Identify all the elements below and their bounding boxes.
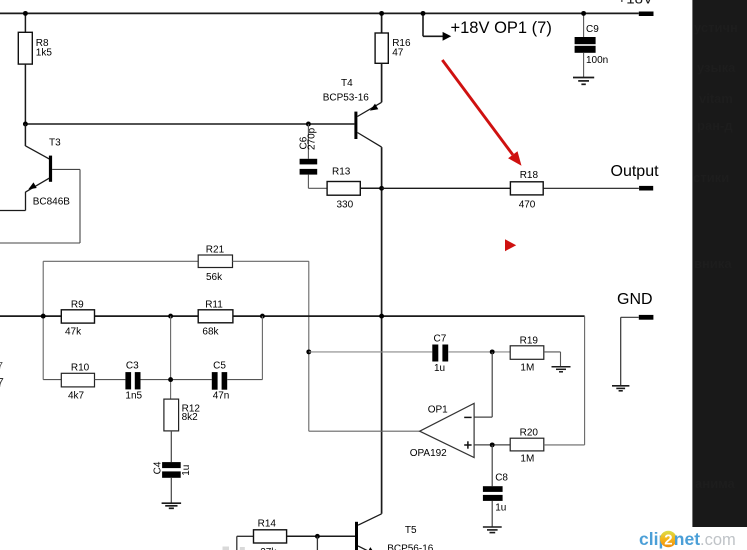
- svg-text:270p: 270p: [307, 127, 318, 150]
- svg-text:1u: 1u: [495, 503, 506, 514]
- svg-text:R14: R14: [258, 519, 277, 530]
- wire: +18V top rail: [0, 12, 639, 14]
- svg-text:330: 330: [337, 200, 354, 211]
- svg-text:R9: R9: [71, 299, 84, 310]
- node: R13 / collector junction: [379, 186, 384, 191]
- node: rail / R8 junction: [23, 11, 28, 16]
- svg-text:BCP53-16: BCP53-16: [323, 93, 370, 104]
- wire: GND terminal to ground: [621, 317, 639, 386]
- terminal bar: +18V rail: [639, 12, 654, 17]
- svg-text:R19: R19: [520, 335, 539, 346]
- svg-text:устичн: устичн: [694, 20, 738, 35]
- svg-text:стики: стики: [693, 170, 729, 185]
- resistor R11: [198, 299, 233, 337]
- svg-text:вника: вника: [694, 256, 732, 271]
- svg-text:R20: R20: [520, 427, 539, 438]
- svg-text:Output: Output: [611, 163, 660, 180]
- node: rail / collector junction: [379, 314, 384, 319]
- svg-text:7: 7: [0, 375, 4, 390]
- node: rail / flag junction: [421, 11, 426, 16]
- resistor R21: [43, 244, 309, 283]
- resistor R19: [510, 335, 560, 373]
- svg-text:1u: 1u: [434, 363, 445, 374]
- svg-text:R10: R10: [71, 363, 90, 374]
- node: R9 / R11 / vertical junction: [168, 314, 173, 319]
- wire: inverting input drop x=492.2: [474, 352, 492, 417]
- svg-text:470: 470: [519, 200, 536, 211]
- ground: under C9: [573, 78, 594, 85]
- wire: R21 right leg down to op-amp output: [308, 261, 310, 431]
- node: base rail / C6 junction: [306, 122, 311, 127]
- svg-text:7: 7: [0, 361, 3, 372]
- svg-text:47n: 47n: [213, 391, 230, 402]
- resistor R18: [510, 170, 639, 211]
- svg-text:56k: 56k: [206, 272, 223, 283]
- svg-text:+18V OP1 (7): +18V OP1 (7): [451, 19, 552, 37]
- svg-text:C3: C3: [126, 361, 139, 372]
- node: R11 right junction: [260, 314, 265, 319]
- wire: mid vertical x=170.6: [170, 316, 172, 399]
- svg-text:2: 2: [664, 532, 672, 549]
- svg-text:net: net: [674, 529, 700, 549]
- ground: GND symbol: [612, 386, 629, 391]
- svg-text:C9: C9: [586, 24, 599, 35]
- node: R14 / T5 base junction: [315, 534, 320, 539]
- node: rail / R16 junction: [379, 11, 384, 16]
- node: C3 / C5 / R12 junction: [168, 377, 173, 382]
- capacitor C8: [483, 445, 509, 527]
- svg-text:100n: 100n: [586, 55, 608, 66]
- svg-text:+18V: +18V: [618, 0, 653, 7]
- transistor T4 BCP53-16: [323, 78, 382, 147]
- svg-text:C8: C8: [495, 473, 508, 484]
- resistor R14: [237, 519, 355, 550]
- resistor R10: [43, 363, 125, 402]
- svg-text:C5: C5: [213, 361, 226, 372]
- capacitor C5: [212, 361, 263, 402]
- svg-text:1u: 1u: [181, 465, 192, 476]
- terminal bar: Output: [639, 186, 653, 191]
- node: R21 leg / C7 junction: [306, 349, 311, 354]
- wire: op-amp output line y=431: [309, 430, 420, 432]
- wire: main node rail y=316: [0, 315, 585, 317]
- transistor T5 BCP56-16: [355, 514, 434, 550]
- resistor R16: [375, 13, 411, 102]
- svg-text:4k7: 4k7: [68, 391, 85, 402]
- svg-text:68k: 68k: [202, 326, 219, 337]
- capacitor C3: [125, 361, 211, 402]
- svg-text:OPA192: OPA192: [410, 448, 447, 459]
- svg-text:C4: C4: [153, 461, 164, 474]
- ground: under C8: [483, 527, 502, 533]
- svg-text:T5: T5: [405, 525, 417, 536]
- svg-text:1M: 1M: [520, 362, 534, 373]
- svg-text:OP1: OP1: [428, 404, 448, 415]
- resistor R9: [61, 299, 94, 337]
- svg-text:ран-д: ран-д: [697, 118, 733, 133]
- op-amp U1 OP1 OPA192: [410, 403, 474, 459]
- ground: at R19: [552, 367, 571, 372]
- resistor R12: [164, 399, 200, 462]
- node: left leg junction: [41, 314, 46, 319]
- node: R8 / T3 / base-rail junction: [23, 122, 28, 127]
- ground: under C4: [162, 503, 182, 508]
- svg-text:BCP56-16: BCP56-16: [387, 544, 434, 550]
- svg-text:.com: .com: [700, 531, 736, 549]
- transistor T3 BC846B: [0, 124, 80, 243]
- svg-text:R11: R11: [205, 299, 223, 310]
- resistor R20: [510, 427, 584, 464]
- faint cut text bottom left: [223, 547, 245, 550]
- svg-text:1M: 1M: [520, 453, 534, 464]
- svg-text:vitam: vitam: [699, 91, 733, 106]
- clip2net watermark: [639, 529, 736, 549]
- svg-text:BC846B: BC846B: [33, 197, 71, 208]
- svg-text:T4: T4: [341, 78, 353, 89]
- resistor R13: [308, 167, 381, 211]
- node: rail / C9 junction: [581, 11, 586, 16]
- capacitor C9: [575, 13, 609, 77]
- svg-text:GND: GND: [617, 291, 653, 308]
- power flag +18V OP1 (7): [423, 13, 552, 40]
- svg-text:R21: R21: [206, 244, 225, 255]
- dark sidebar: [692, 0, 747, 527]
- svg-text:47: 47: [392, 47, 404, 58]
- wire: collector line x=381.6: [381, 147, 383, 514]
- wire: base rail y=124: [25, 123, 354, 125]
- wire: junction drop x=317.4: [316, 536, 318, 550]
- svg-text:C7: C7: [434, 333, 447, 344]
- wire: feedback leg x=584.6: [584, 316, 586, 445]
- wire: R21 left leg down: [42, 261, 44, 379]
- node: +input / R20 / C8 junction: [490, 442, 495, 447]
- node: C7 / R19 / inverting junction: [490, 349, 495, 354]
- svg-text:1n5: 1n5: [125, 391, 142, 402]
- svg-text:R13: R13: [332, 167, 351, 178]
- red marker triangle: [505, 239, 516, 251]
- partial label at left edge: [0, 361, 4, 390]
- svg-text:1k5: 1k5: [36, 47, 53, 58]
- svg-text:8k2: 8k2: [182, 412, 199, 423]
- wire: C5 right leg x=262.4: [261, 316, 263, 380]
- red annotation arrow: [442, 60, 521, 166]
- capacitor C6: [299, 124, 318, 188]
- svg-text:R18: R18: [520, 170, 539, 181]
- resistor R8: [18, 13, 52, 124]
- svg-text:47k: 47k: [65, 326, 82, 337]
- svg-text:узыка: узыка: [697, 60, 736, 75]
- terminal bar: GND: [639, 315, 654, 320]
- wire: output line y=188.3: [382, 187, 511, 189]
- capacitor C4: [153, 461, 193, 503]
- capacitor C7: [309, 333, 510, 374]
- svg-text:анима: анима: [695, 476, 736, 491]
- svg-text:T3: T3: [49, 138, 61, 149]
- wire: non-inverting input line y=445: [474, 444, 510, 446]
